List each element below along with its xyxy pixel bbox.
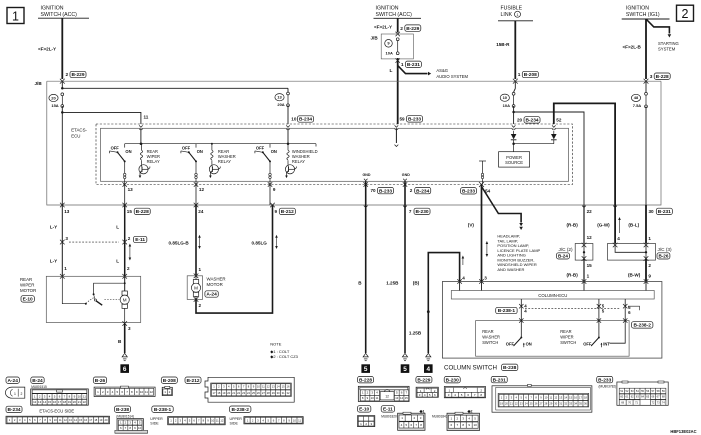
branch to lighting systems (482, 187, 522, 223)
svg-text:10: 10 (371, 396, 375, 400)
svg-text:3: 3 (484, 275, 487, 280)
svg-text:29: 29 (272, 391, 275, 395)
svg-text:ECU: ECU (71, 134, 80, 139)
ground 5 middle (402, 353, 407, 357)
svg-text:10: 10 (140, 390, 144, 394)
svg-text:13: 13 (128, 187, 134, 192)
svg-text:E-11: E-11 (383, 407, 393, 413)
svg-text:B-231: B-231 (493, 377, 506, 383)
column ecu output pin 4 (520, 299, 522, 321)
svg-text:B-230: B-230 (415, 209, 428, 215)
svg-text:1: 1 (401, 62, 404, 68)
svg-text:SWITCH: SWITCH (560, 340, 576, 345)
ETACS entry point (395, 125, 399, 127)
svg-text:18: 18 (217, 391, 220, 395)
wire 2L-Y middle to J/B fuse 9 (397, 18, 399, 32)
svg-text:MOTOR: MOTOR (20, 288, 36, 293)
fuse 20 15A (61, 93, 64, 96)
power source block (499, 152, 530, 167)
relay supply bus inside ETACS (125, 143, 316, 145)
fuse box 9 outline (381, 34, 413, 59)
connector B-230 pinout (444, 377, 460, 383)
svg-text:J/C (2): J/C (2) (559, 247, 574, 252)
svg-text:<F>2L-B: <F>2L-B (623, 44, 642, 49)
fuse 9 10A (396, 38, 399, 41)
connector B-231 pinout (491, 376, 507, 382)
svg-text:2: 2 (400, 26, 403, 32)
pin 22 exit (582, 206, 586, 208)
svg-text:B-234: B-234 (525, 118, 538, 124)
svg-text:10A: 10A (386, 51, 393, 56)
B-238-2 label (632, 322, 653, 328)
fuse 13 20A (287, 92, 290, 95)
svg-text:B-233: B-233 (408, 117, 421, 123)
svg-text:13: 13 (395, 396, 399, 400)
svg-text:19: 19 (68, 400, 72, 404)
svg-text:15B-R: 15B-R (496, 42, 510, 47)
svg-text:10A: 10A (503, 103, 510, 108)
connector B-238-2 pinout (230, 406, 251, 412)
svg-text:(B): (B) (413, 281, 420, 286)
svg-text:26: 26 (257, 391, 260, 395)
ETACS-ECU inner solid box (101, 128, 569, 181)
svg-text:ETACS-ECU SIDE: ETACS-ECU SIDE (39, 408, 74, 413)
connector B-238-1 dashed line (525, 307, 620, 309)
svg-text:1: 1 (14, 392, 16, 396)
svg-text:B-234: B-234 (7, 407, 20, 413)
svg-text:L: L (390, 68, 393, 74)
svg-text:9: 9 (648, 274, 651, 279)
svg-text:3: 3 (128, 326, 131, 331)
joint connector J/C(2) B-24 (575, 244, 593, 261)
svg-text:ON: ON (526, 342, 532, 347)
svg-text:24: 24 (247, 391, 250, 395)
svg-text:IGNITION: IGNITION (41, 6, 64, 12)
connector B-233 pinout (597, 376, 613, 382)
svg-text:52: 52 (556, 117, 562, 122)
svg-text:(MU801514): (MU801514) (116, 414, 134, 418)
pin 54 connector B-233 (461, 188, 477, 194)
fuse 10 10A (512, 92, 515, 95)
wire L down to ETACS pin 59 (397, 58, 399, 124)
svg-text:B-208: B-208 (524, 72, 537, 78)
svg-text:STARTING: STARTING (658, 41, 679, 46)
branch arrow to starting system (646, 19, 669, 34)
svg-text:B-229: B-229 (417, 377, 430, 383)
relay WINDSHIELD WASHER RELAY (255, 144, 318, 185)
connector B-212 pinout (185, 377, 201, 383)
svg-text:WASHER: WASHER (482, 335, 500, 340)
svg-text:5: 5 (403, 366, 407, 373)
connector B-24 pinout (31, 377, 44, 383)
svg-text:POWER: POWER (506, 155, 522, 160)
svg-text:FUSIBLE: FUSIBLE (501, 6, 523, 12)
ground 5 left (363, 353, 368, 357)
svg-text:AUDIO SYSTEM: AUDIO SYSTEM (436, 74, 468, 79)
wire 2L-Y from ACC to J/B pin 2 (61, 18, 63, 79)
svg-text:21: 21 (232, 391, 235, 395)
connector B-208 pinout (161, 377, 177, 383)
wire 1.25B ground (404, 205, 406, 353)
svg-text:B-238: B-238 (116, 407, 129, 413)
rear washer switch (520, 321, 522, 338)
svg-text:12: 12 (587, 235, 593, 240)
svg-text:21: 21 (78, 400, 82, 404)
column switch box (442, 282, 662, 359)
svg-text:20: 20 (517, 117, 523, 122)
rear wiper motor M (124, 276, 126, 291)
svg-text:M: M (123, 298, 127, 303)
svg-text:3: 3 (65, 236, 68, 241)
svg-text:A-24: A-24 (206, 292, 217, 298)
svg-text:31: 31 (282, 391, 285, 395)
svg-text:10: 10 (54, 418, 57, 422)
svg-text:L-Y: L-Y (50, 259, 57, 264)
svg-text:13: 13 (69, 418, 72, 422)
svg-text:12: 12 (385, 394, 389, 398)
svg-text:12: 12 (150, 390, 154, 394)
svg-text:2: 2 (648, 263, 651, 268)
svg-text:30: 30 (277, 391, 280, 395)
connector B-238-1 pinout (152, 406, 173, 412)
svg-text:0.85LG-B: 0.85LG-B (169, 240, 190, 245)
svg-text:B-212: B-212 (186, 378, 199, 384)
wire G-W pin 52 to J/C 3 (613, 206, 617, 208)
svg-text:22: 22 (237, 391, 240, 395)
svg-text:12: 12 (64, 418, 67, 422)
svg-text:7: 7 (409, 209, 412, 214)
svg-text:J/B: J/B (371, 36, 379, 41)
svg-text:SYSTEM: SYSTEM (658, 47, 676, 52)
svg-text:30: 30 (649, 209, 655, 214)
wire L to rear wiper motor (124, 205, 126, 276)
svg-text:HBF13E02AC: HBF13E02AC (670, 429, 696, 434)
connector B-229 pinout (416, 377, 432, 383)
svg-text:OFF: OFF (256, 145, 265, 150)
svg-text:11: 11 (83, 394, 86, 398)
svg-text:B-233: B-233 (598, 377, 611, 383)
svg-text:MOTOR: MOTOR (207, 282, 223, 287)
svg-text:10: 10 (473, 423, 477, 427)
connector B-26 pinout (93, 377, 106, 383)
svg-text:SWITCH (IG1): SWITCH (IG1) (626, 12, 660, 18)
svg-text:13: 13 (272, 385, 275, 389)
column ecu output pin 6 (624, 299, 626, 321)
pin 24 exit from J/B (194, 203, 199, 208)
svg-text:REAR: REAR (20, 277, 32, 282)
svg-text:16: 16 (53, 400, 57, 404)
wire V from pin 54 to column switch pin 3 (481, 185, 483, 282)
svg-text:20: 20 (227, 391, 230, 395)
svg-text:1: 1 (648, 236, 651, 241)
rear wiper motor box (46, 276, 140, 322)
svg-text:0.85LG: 0.85LG (252, 240, 268, 245)
svg-text:1.25B: 1.25B (386, 281, 399, 286)
wire B-L fuse48 to J/C 3 (645, 205, 647, 244)
svg-text:B-26: B-26 (95, 378, 106, 384)
column ECU inner box (451, 291, 654, 300)
svg-text:18: 18 (94, 418, 97, 422)
svg-text:WASHER: WASHER (207, 276, 226, 281)
svg-text:REAR: REAR (482, 329, 493, 334)
svg-text:<F>2L-Y: <F>2L-Y (38, 47, 56, 52)
svg-text:RELAY: RELAY (218, 159, 231, 164)
svg-text:B-208: B-208 (163, 378, 176, 384)
wire column switch ground loop (428, 253, 459, 353)
svg-text:B-234: B-234 (416, 188, 429, 194)
svg-text:11: 11 (262, 385, 265, 389)
svg-text:10: 10 (257, 385, 260, 389)
wire ACC bus inside J/B (61, 81, 63, 88)
svg-text:<F>2L-Y: <F>2L-Y (374, 24, 392, 29)
B-238-1 label (496, 307, 517, 313)
svg-text:32: 32 (287, 391, 290, 395)
ground 4 (426, 353, 431, 357)
svg-text:15: 15 (79, 418, 82, 422)
svg-text:ON: ON (271, 149, 277, 154)
svg-text:WIPER: WIPER (20, 282, 34, 287)
svg-text:ETACS-: ETACS- (71, 127, 87, 132)
svg-text:9: 9 (273, 187, 276, 192)
svg-text:2: 2 (66, 72, 69, 78)
svg-text:J/B: J/B (35, 81, 43, 86)
svg-text:B-238: B-238 (503, 365, 517, 371)
svg-text:(B-W): (B-W) (628, 272, 641, 277)
svg-text:12: 12 (199, 187, 205, 192)
svg-text:REAR: REAR (560, 329, 571, 334)
switch inner box (476, 321, 629, 357)
wire 2L-B from IG1 (645, 19, 647, 79)
svg-text:B-231: B-231 (658, 209, 671, 215)
svg-text:SWITCH (ACC): SWITCH (ACC) (41, 12, 78, 18)
wire fusible link to fuse 10 (514, 81, 516, 88)
svg-text:2: 2 (410, 188, 413, 193)
svg-text:70: 70 (371, 188, 377, 193)
svg-text:B-229: B-229 (71, 72, 84, 78)
svg-text:B-228: B-228 (359, 377, 372, 383)
svg-text:22: 22 (587, 209, 593, 214)
svg-text:ON: ON (125, 149, 131, 154)
wires into column ecu (459, 282, 461, 291)
wire fuse 10 to pin 22 exit (514, 112, 584, 205)
wire from fuse 20 to ETACS pin 11 (62, 112, 141, 124)
svg-text:1: 1 (64, 266, 67, 271)
svg-text:L: L (116, 224, 119, 229)
ETACS entry point (139, 125, 143, 127)
wire R-B J/C2 to column switch (583, 259, 585, 282)
svg-text:13: 13 (38, 400, 42, 404)
connector E-11 pinout (381, 406, 394, 412)
svg-text:SWITCH (ACC): SWITCH (ACC) (376, 12, 413, 18)
svg-text:RELAY: RELAY (292, 159, 305, 164)
svg-text:B-212: B-212 (281, 209, 294, 215)
svg-text:13: 13 (64, 209, 70, 214)
svg-text:COLUMN-ECU: COLUMN-ECU (538, 293, 567, 298)
svg-text:1.25B: 1.25B (409, 330, 422, 335)
svg-text:MU801820: MU801820 (381, 415, 397, 419)
svg-text:2: 2 (199, 303, 202, 308)
svg-text:B-228: B-228 (656, 74, 669, 80)
svg-text:4: 4 (427, 366, 431, 373)
svg-text:59: 59 (400, 116, 406, 121)
thick wire ETACS pin 52 loop (554, 103, 615, 205)
wire fuse 48 to pin 30 exit (645, 106, 647, 205)
washer motor box (187, 276, 202, 300)
diode junction wires (512, 142, 515, 145)
svg-text:A-24: A-24 (7, 378, 18, 384)
svg-text:10: 10 (138, 426, 142, 430)
rear wiper motor switch (62, 276, 86, 303)
svg-text:L-Y: L-Y (50, 224, 57, 229)
svg-text:UPPER: UPPER (150, 417, 163, 421)
svg-text:27: 27 (262, 391, 265, 395)
svg-text:SWITCH: SWITCH (482, 340, 498, 345)
svg-text:B-234: B-234 (299, 117, 312, 123)
svg-text:MU801843: MU801843 (432, 415, 448, 419)
wire fuse 13 to ETACS pin 10 (287, 105, 289, 124)
ETACS entry point (552, 125, 556, 127)
svg-text:B-238-1: B-238-1 (498, 308, 516, 314)
svg-text:14: 14 (74, 418, 77, 422)
svg-text:15: 15 (587, 263, 593, 268)
connector E-10 pinout (358, 406, 371, 412)
svg-text:9: 9 (275, 209, 278, 214)
svg-text:15A: 15A (51, 103, 58, 108)
svg-text:12: 12 (33, 400, 37, 404)
svg-text:SOURCE: SOURCE (505, 160, 523, 165)
svg-text:(V): (V) (468, 223, 475, 228)
svg-text:E-10: E-10 (359, 407, 369, 413)
connector B-238 pinout (115, 406, 131, 412)
svg-text:SIDE: SIDE (230, 421, 239, 425)
svg-text:IGNITION: IGNITION (376, 6, 399, 12)
svg-text:OFF: OFF (583, 342, 592, 347)
fuse 48 7.5A (645, 81, 647, 92)
svg-text:E-11: E-11 (135, 237, 145, 243)
svg-text:OFF: OFF (506, 342, 515, 347)
svg-text:16: 16 (287, 385, 290, 389)
svg-text:(B-L): (B-L) (628, 223, 639, 228)
svg-text:15: 15 (282, 385, 285, 389)
svg-text:◆2 : COLT CZ3: ◆2 : COLT CZ3 (270, 354, 298, 359)
svg-text:UPPER: UPPER (230, 417, 243, 421)
svg-text:11: 11 (376, 396, 379, 400)
wire L-Y to rear wiper motor (61, 205, 63, 276)
svg-text:(R-B): (R-B) (567, 223, 579, 228)
wire fuse 10 junction (513, 106, 515, 124)
page tag 1 (7, 8, 24, 24)
svg-text:L: L (116, 259, 119, 264)
relay REAR WIPER RELAY (110, 143, 160, 185)
svg-text:20: 20 (73, 400, 77, 404)
svg-text:17: 17 (58, 400, 62, 404)
ground 6 (122, 353, 127, 357)
svg-text:4: 4 (462, 275, 465, 280)
svg-text:LINK: LINK (501, 12, 513, 18)
diode 2 in ETACS power source (553, 131, 555, 134)
svg-text:AND WASHER: AND WASHER (497, 267, 524, 272)
svg-text:10: 10 (503, 95, 508, 100)
svg-text:WIPER: WIPER (560, 335, 573, 340)
svg-text:1: 1 (587, 274, 590, 279)
svg-text:11: 11 (298, 418, 301, 422)
svg-text:COLUMN SWITCH: COLUMN SWITCH (444, 365, 497, 372)
svg-text:B-26: B-26 (658, 254, 668, 259)
svg-text:10: 10 (291, 116, 297, 121)
svg-text:28: 28 (267, 391, 270, 395)
pin 9 exit from J/B connector B-212 (270, 203, 275, 208)
svg-text:20: 20 (51, 95, 56, 100)
svg-text:14: 14 (43, 400, 47, 404)
ETACS entry point (512, 125, 516, 127)
svg-text:12: 12 (267, 385, 270, 389)
junction block J/B outline (47, 81, 661, 205)
svg-text:2: 2 (128, 236, 131, 241)
svg-text:15: 15 (127, 209, 133, 214)
connector A-24 pinout (6, 377, 19, 383)
svg-text:B-228: B-228 (136, 209, 149, 215)
svg-text:12: 12 (220, 419, 224, 423)
svg-text:J/C (3): J/C (3) (658, 247, 673, 252)
svg-text:B-230: B-230 (446, 377, 459, 383)
wires relay outputs to J/B bottom (124, 185, 126, 206)
svg-text:MU801515: MU801515 (31, 385, 47, 389)
pin 13 exit from J/B (60, 203, 65, 208)
svg-text:17: 17 (89, 418, 92, 422)
branch arrow to AS&G audio system (398, 66, 428, 74)
svg-text:OFF: OFF (111, 145, 120, 150)
rear wiper motor pin 3 to ground (122, 321, 127, 326)
svg-text:11: 11 (216, 419, 219, 423)
svg-text:B-238-2: B-238-2 (634, 323, 652, 329)
svg-text:20: 20 (104, 418, 107, 422)
svg-text:(MU803782): (MU803782) (599, 384, 617, 388)
ETACS entry point (286, 125, 290, 127)
pin 7 exit connector B-230 (403, 206, 407, 208)
svg-text:OFF: OFF (182, 145, 191, 150)
svg-text:14: 14 (400, 396, 404, 400)
svg-text:RELAY: RELAY (147, 159, 160, 164)
svg-text:22: 22 (83, 400, 87, 404)
svg-text:B-233: B-233 (379, 188, 392, 194)
svg-text:19: 19 (222, 391, 225, 395)
svg-text:6: 6 (123, 366, 127, 373)
svg-text:SIDE: SIDE (150, 421, 159, 425)
svg-text:7.5A: 7.5A (633, 103, 642, 108)
connector E-11 crossing (60, 240, 65, 245)
svg-text:IGNITION: IGNITION (626, 6, 649, 12)
svg-text:25: 25 (252, 391, 255, 395)
svg-text:M: M (194, 286, 198, 291)
connector B-234 pinout (6, 406, 22, 412)
page tag 2 (677, 5, 694, 21)
column ecu output pin 5 (598, 299, 600, 321)
wire 59 signal into ETACS (395, 128, 397, 143)
svg-text:15: 15 (48, 400, 52, 404)
svg-text:(G-W): (G-W) (597, 223, 610, 228)
svg-text:1: 1 (517, 13, 519, 17)
washer motor pin 2 return wire (194, 297, 199, 302)
svg-text:2: 2 (682, 7, 689, 21)
svg-text:ON: ON (197, 149, 203, 154)
svg-text:B-24: B-24 (32, 378, 43, 384)
svg-text:5: 5 (364, 366, 368, 373)
svg-text:24: 24 (198, 209, 204, 214)
svg-text:2: 2 (21, 392, 23, 396)
svg-text:(R-B): (R-B) (567, 272, 579, 277)
joint connector J/C(3) B-26 (608, 244, 656, 261)
svg-text:18: 18 (63, 400, 67, 404)
